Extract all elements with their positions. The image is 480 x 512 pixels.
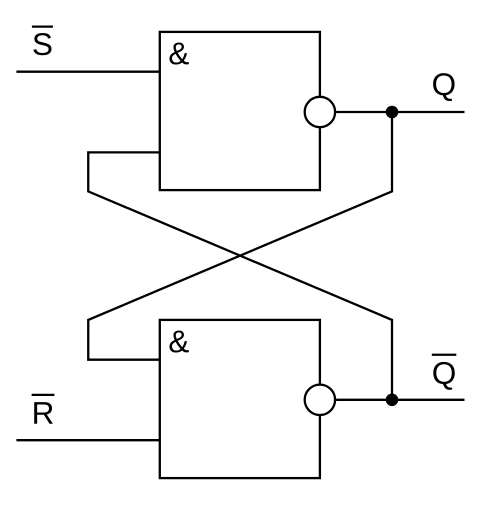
wire: Q output	[330, 111, 465, 113]
label R of R-bar input	[34, 402, 53, 424]
NAND gate U1 (top) body	[160, 32, 320, 190]
label Q output	[433, 73, 455, 101]
NAND gate U1 inversion bubble	[305, 97, 335, 127]
wire: R-bar input to bottom gate pin	[16, 439, 159, 441]
NAND gate U1 function label &	[169, 42, 188, 64]
wire: top gate lower input stub from node Q-bar (cross-coupling)	[88, 152, 392, 399]
NAND gate U2 function label &	[169, 330, 188, 352]
label S of S-bar input	[33, 33, 51, 55]
overbar of S	[32, 26, 53, 28]
junction node Q-bar (solder dot)	[386, 394, 399, 407]
overbar of R	[32, 394, 55, 396]
NAND gate U2 (bottom) body	[160, 320, 320, 478]
overbar of Q-bar	[432, 354, 457, 356]
NAND gate U2 inversion bubble	[305, 385, 335, 415]
wire: S-bar input to top gate pin	[16, 71, 159, 73]
junction node Q (solder dot)	[386, 106, 399, 119]
wire: node Q down, crossing to bottom gate upper input stub	[88, 112, 392, 360]
label Q of Q-bar output	[433, 362, 455, 390]
wire: Q-bar output	[330, 399, 465, 401]
